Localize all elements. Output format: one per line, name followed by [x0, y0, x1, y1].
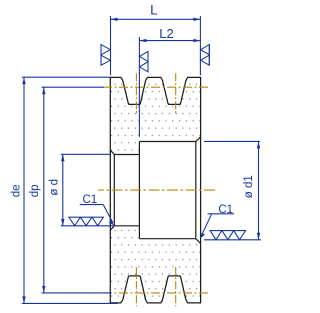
L2 dimension line	[139, 40, 200, 42]
svg-text:ø d1: ø d1	[243, 175, 255, 198]
C1 left leader arrowhead	[109, 220, 114, 225]
de dimension line	[23, 77, 25, 303]
dp bottom extension line	[42, 292, 112, 294]
svg-text:C1: C1	[218, 204, 233, 216]
bore left chamfer bottom slant	[110, 226, 114, 230]
dp top extension line	[42, 86, 105, 88]
svg-text:ø d: ø d	[49, 179, 61, 196]
de top extension line	[22, 76, 110, 78]
L2 left extension line	[138, 37, 140, 137]
ød1 top arrowhead	[257, 141, 260, 148]
de bottom extension line	[22, 302, 118, 304]
bore right chamfer top slant	[196, 137, 201, 142]
de bottom arrowhead	[22, 296, 25, 303]
ød top extension line	[61, 153, 110, 155]
L left extension line	[110, 16, 112, 75]
C1 left chamfer triangle row	[69, 217, 104, 226]
ød dimension line	[62, 154, 64, 226]
ød bottom extension line	[61, 225, 114, 227]
groove 2 top centerline	[175, 73, 177, 113]
C1 left leader underline	[80, 204, 104, 206]
bore right far-side chamfer edge	[195, 142, 197, 239]
svg-text:L2: L2	[159, 26, 173, 41]
top pitch line	[103, 86, 209, 88]
L/L2 right extension line	[199, 16, 201, 75]
C1 right leader	[200, 214, 212, 238]
L2 right arrowhead	[193, 39, 200, 42]
dp top arrowhead	[42, 87, 45, 94]
C1 right leader underline	[208, 213, 235, 215]
groove 1 bottom centerline	[135, 267, 137, 306]
ød1 top extension line	[204, 140, 260, 142]
bore void (white, covers stipple)	[110, 137, 200, 244]
bottom pitch line	[103, 292, 209, 294]
dp dimension line	[43, 87, 45, 293]
svg-text:de: de	[11, 185, 23, 198]
dp bottom arrowhead	[42, 286, 45, 293]
machining symbol at left face	[101, 44, 110, 65]
groove 2 bottom centerline	[175, 267, 177, 306]
bore step face	[138, 142, 140, 239]
de top arrowhead	[22, 77, 25, 84]
L right arrowhead	[193, 18, 200, 21]
ød1 bottom extension line	[204, 239, 261, 241]
svg-text:C1: C1	[82, 194, 97, 206]
ød1 dimension line	[258, 141, 260, 239]
L dimension line	[111, 18, 201, 20]
bore ød top line	[114, 154, 139, 156]
machining symbol at step face	[140, 51, 149, 72]
pulley section material (stippled)	[110, 77, 200, 303]
svg-text:L: L	[150, 3, 158, 18]
C1 right leader arrowhead	[200, 233, 205, 239]
bore ød1 bottom line	[139, 238, 195, 240]
bore ød1 top line	[139, 141, 195, 143]
bore right chamfer bottom slant	[196, 239, 201, 244]
pulley outline	[110, 77, 200, 303]
machining symbol at right face	[201, 44, 210, 65]
ød top arrowhead	[61, 154, 64, 161]
axis centerline	[98, 189, 217, 191]
bore ød bottom line	[114, 225, 139, 227]
groove 1 top centerline	[135, 73, 137, 113]
ød1 bottom arrowhead	[257, 233, 260, 240]
L left arrowhead	[111, 18, 118, 21]
C1 right chamfer triangle row	[210, 231, 245, 240]
svg-text:dp: dp	[29, 184, 41, 197]
bore left chamfer top slant	[110, 150, 114, 154]
bore left far-side chamfer edge	[113, 155, 115, 226]
C1 left leader	[103, 205, 113, 223]
L2 left arrowhead	[139, 39, 146, 42]
ød bottom arrowhead	[61, 219, 64, 226]
